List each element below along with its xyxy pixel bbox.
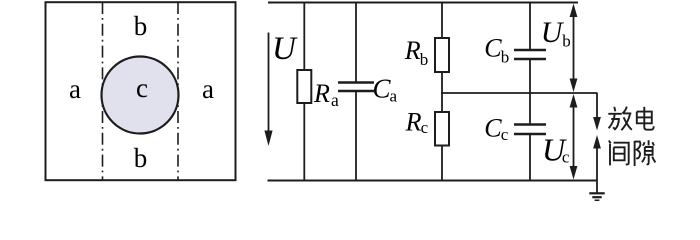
dash-dot boundary line right — [177, 2, 179, 180]
CJK text 间隙 (gap) drawn as strokes — [609, 140, 656, 166]
svg-text:R: R — [404, 36, 421, 65]
wire: between R_b and R_c — [441, 72, 443, 112]
capacitor C_b — [514, 50, 546, 59]
wire: R_b branch top — [441, 3, 443, 39]
电 — [643, 107, 645, 125]
left figure: specimen rectangle — [46, 2, 236, 180]
wire: ground stem — [596, 181, 598, 193]
wire: between C_b and C_c — [529, 59, 531, 125]
svg-text:R: R — [405, 108, 422, 137]
circle c (cavity) — [102, 57, 179, 134]
间 — [609, 141, 611, 144]
svg-text:c: c — [136, 73, 148, 103]
svg-text:c: c — [562, 148, 570, 167]
svg-text:b: b — [134, 11, 148, 41]
CJK text 放电 (discharge) drawn as strokes — [608, 107, 653, 131]
voltage arrow U — [264, 33, 272, 147]
svg-text:c: c — [421, 118, 429, 137]
svg-text:b: b — [501, 47, 510, 66]
resistor R_b — [435, 38, 449, 72]
svg-text:R: R — [313, 79, 330, 108]
svg-text:c: c — [501, 125, 509, 144]
放 — [614, 107, 615, 112]
resistor R_c — [435, 112, 449, 146]
svg-text:C: C — [484, 34, 502, 63]
wire: R_c branch bottom — [441, 146, 443, 181]
wire: R_a branch bottom — [303, 103, 305, 181]
wire: R_a branch top — [303, 3, 305, 71]
wire: C_b branch top — [529, 3, 531, 51]
wire: bottom bus — [268, 180, 598, 182]
wire: top bus — [268, 2, 578, 4]
svg-text:b: b — [562, 32, 571, 51]
wire: C_a branch bottom — [355, 91, 357, 181]
capacitor C_a — [338, 83, 374, 92]
svg-text:a: a — [202, 74, 214, 104]
wire: middle bus (node between b and c layers) — [441, 92, 598, 94]
隙 — [634, 141, 636, 166]
capacitor C_c — [514, 125, 546, 135]
svg-text:U: U — [541, 16, 565, 49]
voltage arrow U_c (double headed) — [570, 94, 578, 180]
svg-text:C: C — [484, 113, 502, 142]
svg-text:b: b — [134, 143, 148, 173]
wire: C_a branch top — [355, 3, 357, 83]
svg-text:U: U — [272, 31, 298, 67]
svg-text:a: a — [390, 87, 398, 106]
voltage arrow U_b (double headed) — [570, 4, 578, 93]
svg-text:b: b — [420, 50, 429, 69]
resistor R_a — [297, 70, 311, 103]
dash-dot boundary line left — [102, 2, 104, 180]
svg-text:a: a — [69, 74, 81, 104]
discharge gap branch: lower electrode up arrow + wire — [593, 135, 601, 181]
wire: C_c branch bottom — [529, 134, 531, 181]
svg-text:a: a — [331, 90, 339, 110]
ground — [589, 193, 604, 200]
discharge gap branch: upper electrode wire + down arrow — [593, 93, 601, 131]
